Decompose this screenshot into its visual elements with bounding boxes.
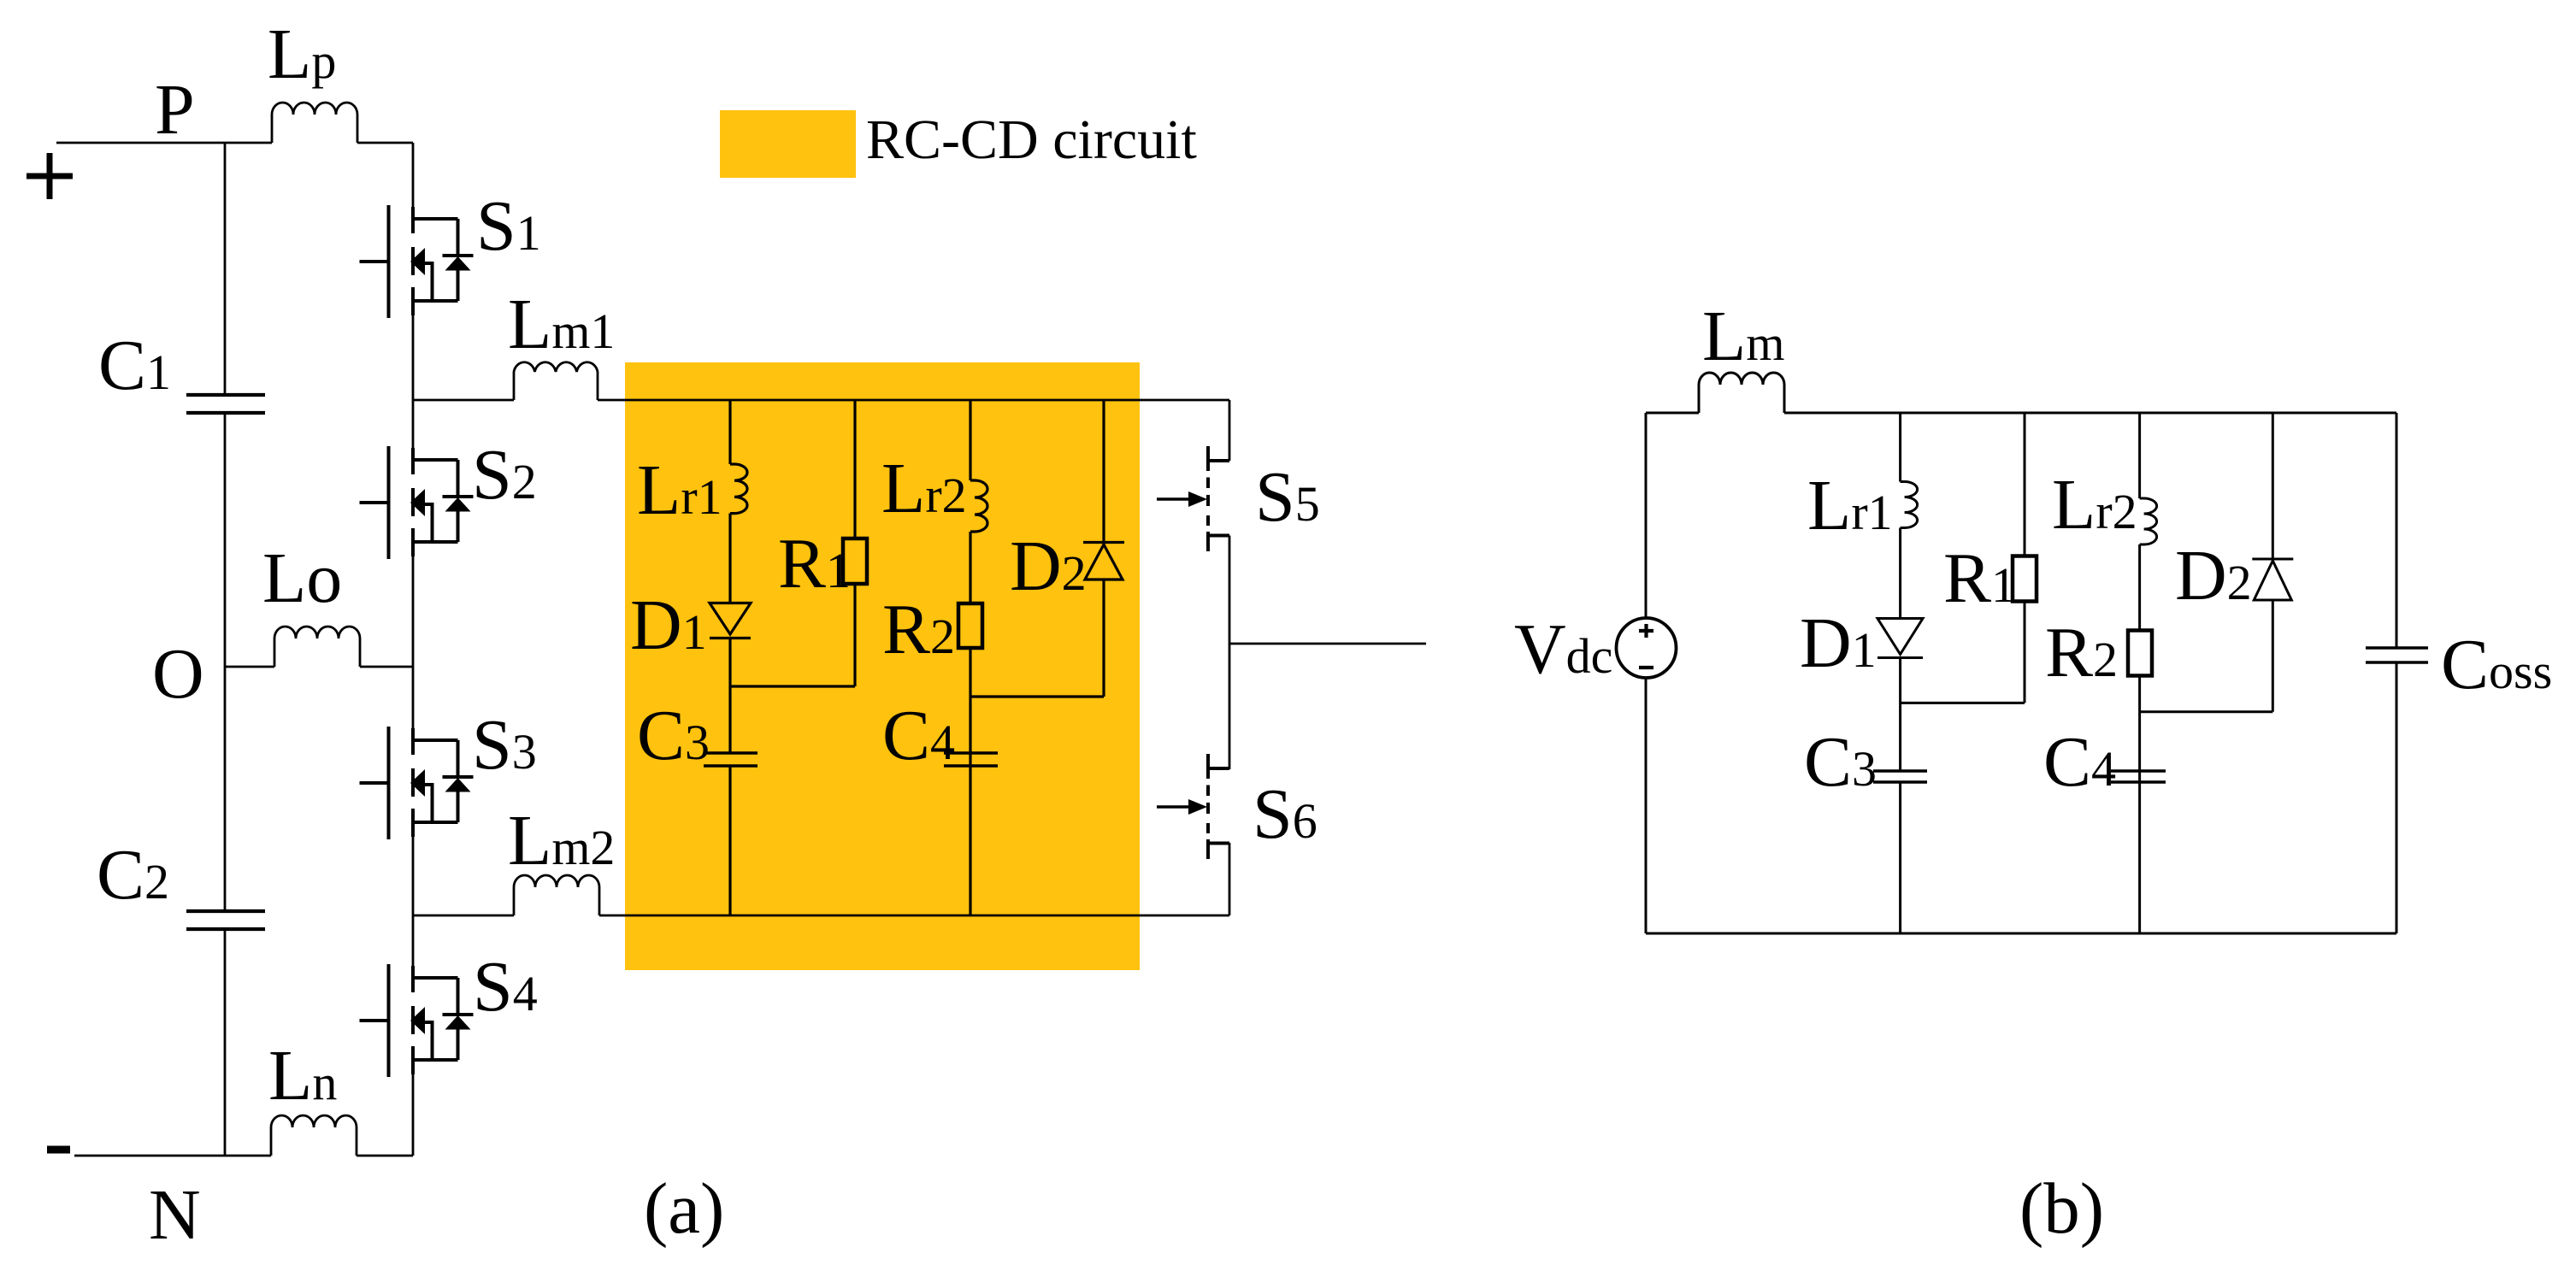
svg-text:Lo: Lo (262, 538, 342, 618)
svg-text:RC-CD circuit: RC-CD circuit (866, 109, 1197, 171)
svg-text:O: O (152, 634, 204, 714)
svg-text:N: N (149, 1175, 201, 1255)
svg-text:P: P (155, 70, 195, 150)
svg-text:(b): (b) (2019, 1168, 2104, 1249)
svg-text:(a): (a) (644, 1168, 724, 1249)
